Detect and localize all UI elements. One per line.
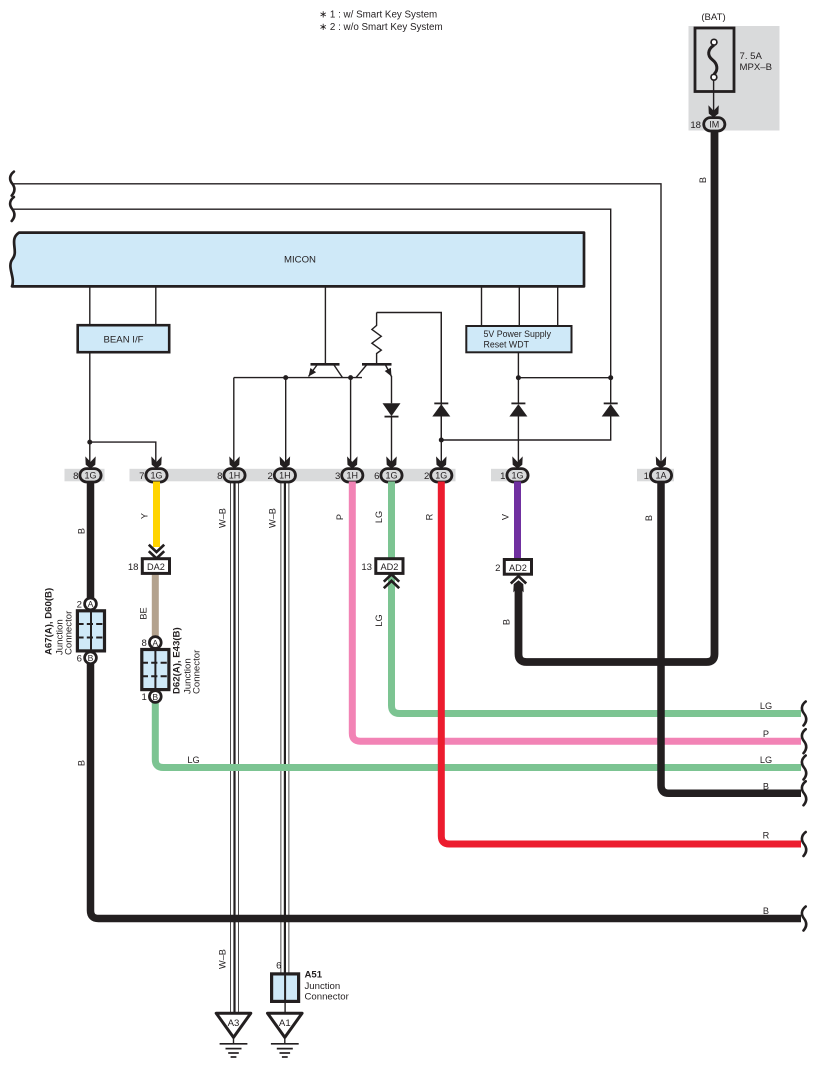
wires micon to 5v box xyxy=(481,287,483,326)
connector band 3 xyxy=(491,469,527,482)
fuse MPX-B box xyxy=(695,28,734,92)
svg-text:DA2: DA2 xyxy=(147,562,165,572)
svg-text:W–B: W–B xyxy=(218,508,228,528)
wire 5v box to diode D3 xyxy=(517,352,519,403)
pin 8 of connector 1G xyxy=(73,456,101,482)
svg-text:W–B: W–B xyxy=(218,949,228,969)
wire B black from AD2 pin2 down, right, up to fuse IM xyxy=(519,130,715,662)
svg-text:LG: LG xyxy=(760,755,772,765)
svg-text:A: A xyxy=(152,638,158,648)
svg-text:A: A xyxy=(88,599,94,609)
svg-text:A67(A), D60(B): A67(A), D60(B) xyxy=(44,588,55,655)
svg-text:AD2: AD2 xyxy=(380,562,398,572)
svg-text:Junction: Junction xyxy=(305,981,341,992)
wire micon to bean if right xyxy=(155,287,157,325)
wire fuse to IM xyxy=(713,80,715,112)
svg-text:A51: A51 xyxy=(305,970,323,981)
micon block MICON xyxy=(10,233,584,287)
wire B black from 1(4A) to right edge xyxy=(661,482,801,794)
wire bean to pins xyxy=(90,352,156,462)
node A circle xyxy=(149,637,161,649)
wire diode D3 to 1(1G) xyxy=(517,417,519,463)
svg-text:6: 6 xyxy=(276,961,281,972)
resistor R xyxy=(372,313,381,365)
wire R red from 2(1G) to right edge xyxy=(441,482,801,845)
junction connector A67(A) D60(B) xyxy=(44,588,105,664)
wire W-B from 2(1H) to junction connector A51 xyxy=(281,482,289,974)
wire micon to transistor q1 base xyxy=(324,287,326,364)
svg-text:18: 18 xyxy=(690,120,701,131)
node B circle xyxy=(85,652,97,664)
node at 3(1H) xyxy=(348,375,353,380)
svg-text:B: B xyxy=(77,528,87,534)
svg-text:2: 2 xyxy=(77,599,82,610)
break squiggles right edge xyxy=(802,702,806,726)
node at 2(1H) xyxy=(283,375,288,380)
connector band 2 xyxy=(130,469,456,482)
fuse block shading xyxy=(689,26,780,131)
break squiggle line1 xyxy=(10,172,14,196)
svg-text:B: B xyxy=(763,782,769,792)
pin 8 of connector 1H xyxy=(217,456,245,482)
grid box xyxy=(77,611,104,651)
transistor Q2 xyxy=(362,363,392,366)
svg-text:R: R xyxy=(763,831,770,841)
svg-text:Connector: Connector xyxy=(192,649,203,694)
diode D1 (cathode down) xyxy=(383,403,401,416)
svg-text:6: 6 xyxy=(77,653,82,664)
arrow into IM xyxy=(708,105,718,117)
svg-text:MPX–B: MPX–B xyxy=(740,62,773,73)
svg-text:8: 8 xyxy=(141,638,146,649)
svg-text:B: B xyxy=(502,619,512,625)
svg-text:6: 6 xyxy=(374,471,379,482)
svg-text:MICON: MICON xyxy=(284,255,316,266)
wire W-B from 8(1H) to ground A3 xyxy=(231,482,239,1014)
node D2/torn2 junction xyxy=(439,438,444,443)
svg-text:B: B xyxy=(763,906,769,916)
svg-text:1G: 1G xyxy=(385,471,397,481)
svg-text:1G: 1G xyxy=(150,471,162,481)
svg-text:13: 13 xyxy=(361,562,372,573)
svg-text:2: 2 xyxy=(495,563,500,574)
wire node to node horizontal xyxy=(518,377,610,379)
transistor Q1 xyxy=(311,363,340,366)
svg-text:IM: IM xyxy=(709,120,719,130)
grid box xyxy=(142,650,169,690)
svg-text:(BAT): (BAT) xyxy=(701,12,725,23)
pin 3 of connector 1H xyxy=(335,456,363,482)
connector band 1 xyxy=(65,469,105,482)
svg-text:Connector: Connector xyxy=(305,992,350,1003)
wire diode D1 to 6(1G) xyxy=(391,417,393,462)
svg-text:BEAN I/F: BEAN I/F xyxy=(104,335,144,346)
svg-text:P: P xyxy=(763,729,769,739)
svg-text:Connector: Connector xyxy=(64,610,75,655)
wire diode D4 down corner to D2 column xyxy=(441,313,610,441)
svg-text:2: 2 xyxy=(424,471,429,482)
svg-text:1A: 1A xyxy=(655,471,666,481)
svg-text:∗ 1 : w/ Smart Key System: ∗ 1 : w/ Smart Key System xyxy=(319,10,437,21)
wire BE beige from DA2 to junction connector D62 xyxy=(152,573,159,637)
svg-text:3: 3 xyxy=(335,471,340,482)
svg-text:LG: LG xyxy=(187,755,199,765)
node torn2-d4 xyxy=(608,375,613,380)
node A circle xyxy=(85,598,97,610)
break squiggle line2 xyxy=(10,197,14,221)
chevron into DA2 xyxy=(149,545,164,559)
wire Y yellow from 7(1G) to DA2 xyxy=(153,482,160,548)
wire down to 3(1H) xyxy=(350,378,352,462)
wire micon to bean if left xyxy=(89,287,91,325)
wire down to 2(1H) xyxy=(285,378,287,462)
svg-text:1H: 1H xyxy=(279,471,291,481)
ground A3 xyxy=(216,1013,251,1057)
connector IM pin 18 xyxy=(704,118,725,131)
svg-text:18: 18 xyxy=(128,562,139,573)
pin 1 of connector 4A xyxy=(644,456,672,482)
svg-text:1G: 1G xyxy=(84,471,96,481)
wire B black from junction connector A67 B to right edge xyxy=(91,663,802,919)
torn line 2 xyxy=(13,209,611,378)
torn line 1 to pin 1(4A) xyxy=(13,184,661,462)
connector DA2 pin 18 box xyxy=(142,559,169,574)
pin 2 of connector 1H xyxy=(268,456,296,482)
svg-text:Reset WDT: Reset WDT xyxy=(484,339,530,349)
wire V violet from 1(1G) to AD2 xyxy=(514,482,521,561)
diode D2 (cathode up) on 2(1G) column xyxy=(434,402,448,404)
pin 7 of connector 1G xyxy=(139,456,167,482)
chevron and arrow out of AD2 pin 2 xyxy=(511,576,526,583)
wire diode D2 to 2(1G) xyxy=(440,417,442,463)
svg-text:8: 8 xyxy=(217,471,222,482)
svg-text:2: 2 xyxy=(268,471,273,482)
svg-text:8: 8 xyxy=(73,471,78,482)
pin 2 of connector 1G xyxy=(424,456,452,482)
svg-text:B: B xyxy=(152,692,158,702)
svg-text:5V Power Supply: 5V Power Supply xyxy=(484,329,552,339)
node B circle xyxy=(149,691,161,703)
ground A1 xyxy=(268,1013,303,1057)
connector AD2 pin 13 box xyxy=(376,559,403,574)
base wire across transistors xyxy=(234,377,362,379)
wire resistor top to diode D2 column xyxy=(377,313,442,404)
svg-text:Y: Y xyxy=(140,513,150,519)
svg-text:1G: 1G xyxy=(435,471,447,481)
node 5v-d3 xyxy=(516,375,521,380)
wire corner down to 8(1H) xyxy=(233,378,235,462)
bean if block xyxy=(78,325,170,352)
svg-text:1: 1 xyxy=(500,471,505,482)
connector AD2 pin 2 box xyxy=(504,560,531,575)
svg-text:B: B xyxy=(88,653,94,663)
wire B black from 8(1G) to junction connector A67 A xyxy=(87,482,95,599)
svg-text:B: B xyxy=(77,760,87,766)
wire P pink from 3(1H) to right edge xyxy=(352,482,801,742)
svg-text:R: R xyxy=(425,513,435,520)
svg-text:∗ 2 : w/o Smart Key System: ∗ 2 : w/o Smart Key System xyxy=(319,22,443,33)
svg-text:D62(A), E43(B): D62(A), E43(B) xyxy=(172,627,183,694)
junction connector A51 xyxy=(272,961,350,1014)
svg-text:1H: 1H xyxy=(347,471,359,481)
svg-text:LG: LG xyxy=(374,614,384,626)
svg-text:BE: BE xyxy=(139,607,149,619)
svg-text:1: 1 xyxy=(644,471,649,482)
svg-text:1G: 1G xyxy=(511,471,523,481)
wire LG from junction connector D62 B to right edge xyxy=(155,702,801,768)
svg-text:A3: A3 xyxy=(228,1018,240,1029)
svg-text:V: V xyxy=(501,513,511,520)
svg-text:7: 7 xyxy=(139,471,144,482)
svg-text:W–B: W–B xyxy=(268,508,278,528)
svg-text:AD2: AD2 xyxy=(509,563,527,573)
wire q2 emitter to diode D1 xyxy=(391,376,393,403)
svg-text:B: B xyxy=(644,515,654,521)
svg-text:1: 1 xyxy=(141,692,146,703)
pin 6 of connector 1G xyxy=(374,456,402,482)
svg-text:P: P xyxy=(335,514,345,520)
fuse element xyxy=(711,39,717,45)
svg-text:LG: LG xyxy=(760,701,772,711)
pin 1 of connector 1G xyxy=(500,456,528,482)
svg-text:LG: LG xyxy=(374,511,384,523)
svg-text:7. 5A: 7. 5A xyxy=(740,51,763,62)
svg-text:1H: 1H xyxy=(229,471,241,481)
diode D3 (cathode up) xyxy=(511,402,525,404)
diode D4 (cathode up) xyxy=(604,402,618,404)
wire LG from 6(1G) through AD2 to right edge xyxy=(392,482,802,714)
chevron out of AD2 pin 13 xyxy=(384,574,399,588)
svg-text:B: B xyxy=(698,177,708,183)
connector band 4 xyxy=(637,469,674,482)
junction connector D62(A) E43(B) xyxy=(141,627,202,703)
node bean junction xyxy=(87,440,92,445)
5v power supply reset wdt block xyxy=(466,326,571,352)
svg-text:A1: A1 xyxy=(279,1018,291,1029)
